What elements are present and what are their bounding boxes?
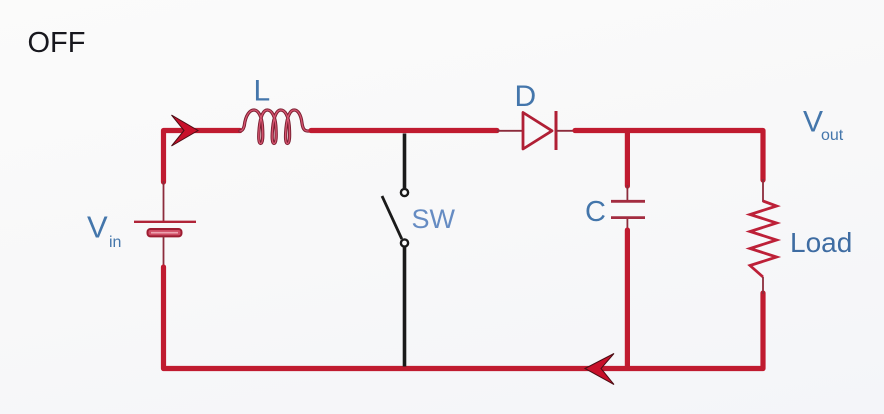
svg-text:out: out [821, 127, 844, 144]
diode D [497, 111, 575, 150]
wire: top-left corner and upper-left segment [164, 131, 241, 183]
svg-text:L: L [254, 75, 271, 108]
wire: top middle segment (inductor to diode) [311, 128, 497, 133]
svg-text:V: V [87, 210, 108, 245]
svg-text:Load: Load [790, 227, 852, 258]
battery V_in [134, 181, 196, 269]
capacitor C [611, 185, 645, 231]
svg-text:D: D [515, 80, 537, 113]
svg-text:OFF: OFF [28, 27, 86, 59]
current arrow on bottom rail [585, 354, 614, 385]
wire: capacitor branch lower [625, 230, 630, 366]
svg-text:in: in [109, 234, 121, 251]
switch SW [382, 134, 408, 367]
label V_in [87, 210, 121, 252]
label V_out [803, 106, 844, 145]
wire: bottom rail with left and right lower branches [164, 267, 764, 369]
resistor Load [750, 179, 777, 294]
wire: top-right segment and corner [575, 131, 763, 181]
wire: capacitor branch upper [625, 131, 630, 186]
svg-text:C: C [585, 196, 606, 228]
inductor L [240, 110, 312, 144]
svg-text:SW: SW [412, 204, 456, 234]
svg-text:V: V [803, 106, 823, 139]
current arrow into inductor [172, 115, 199, 146]
